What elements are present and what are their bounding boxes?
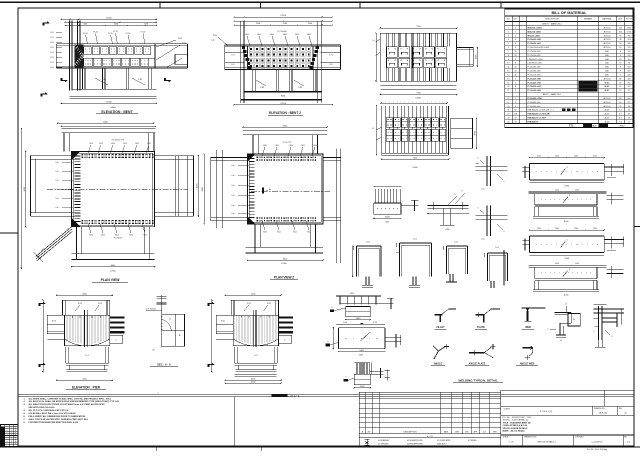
svg-text:W24x104 x8400: W24x104 x8400 — [528, 30, 541, 33]
svg-text:PL 16x180 x420: PL 16x180 x420 — [528, 67, 541, 69]
svg-text:A572-50: A572-50 — [604, 42, 611, 45]
svg-text:L4a: L4a — [232, 195, 235, 197]
svg-text:MATERIAL: MATERIAL — [602, 18, 611, 21]
svg-text:6: 6 — [332, 307, 333, 309]
view E left plan view — [21, 121, 199, 272]
svg-text:1: 1 — [11, 426, 12, 428]
svg-text:UNIT: UNIT — [618, 19, 622, 21]
svg-text:1250: 1250 — [144, 24, 148, 26]
svg-text:HSB M22x75 c/w NUT: HSB M22x75 c/w NUT — [528, 118, 547, 120]
step detail D8 — [548, 304, 581, 343]
svg-text:PL 20 TYP: PL 20 TYP — [283, 142, 292, 144]
svg-text:6: 6 — [594, 331, 595, 333]
svg-text:ALL BOLTS U.N. SHALL BE ASTM A: ALL BOLTS U.N. SHALL BE ASTM A325-N HSB … — [29, 400, 120, 403]
view C upper section (stringer plan) — [373, 26, 478, 99]
svg-text:124: 124 — [628, 51, 631, 53]
svg-text:TITLE : TRANSFER BENT 2B: TITLE : TRANSFER BENT 2B — [503, 421, 531, 424]
svg-text:PL16: PL16 — [343, 322, 347, 324]
svg-text:1: 1 — [11, 437, 12, 439]
svg-text:1-B4: 1-B4 — [260, 87, 264, 89]
svg-text:2: 2 — [515, 28, 516, 30]
svg-text:A572-50: A572-50 — [604, 77, 611, 80]
svg-text:M24: M24 — [270, 34, 274, 36]
svg-text:1: 1 — [11, 430, 12, 432]
svg-text:109: 109 — [628, 75, 631, 77]
svg-text:PL25: PL25 — [267, 303, 271, 305]
svg-text:L4: L4 — [372, 128, 374, 130]
svg-text:0: 0 — [15, 426, 16, 428]
svg-text:6: 6 — [478, 208, 479, 210]
svg-text:A-325: A-325 — [605, 113, 610, 116]
svg-text:TOT WT: TOT WT — [626, 19, 632, 21]
left bolt strip F — [250, 158, 255, 160]
svg-text:4: 4 — [515, 102, 516, 104]
svg-text:3: 3 — [508, 35, 509, 37]
svg-text:8: 8 — [515, 47, 516, 49]
svg-text:M24: M24 — [245, 34, 249, 36]
svg-text:PL 25x300 x650: PL 25x300 x650 — [528, 39, 541, 41]
svg-text:PL 20: PL 20 — [113, 31, 118, 33]
svg-text:83: 83 — [619, 98, 621, 100]
beam detail R2 — [529, 190, 624, 223]
svg-text:PL 16x300 x650: PL 16x300 x650 — [528, 106, 541, 108]
svg-text:M24: M24 — [129, 234, 132, 236]
svg-text:9: 9 — [620, 67, 621, 69]
detail small comb G1 — [373, 186, 418, 224]
svg-text:19: 19 — [628, 118, 630, 120]
svg-text:S T E E L (F): S T E E L (F) — [540, 411, 553, 413]
svg-text:M24: M24 — [293, 231, 296, 233]
svg-text:16: 16 — [515, 51, 517, 53]
svg-text:3: 3 — [620, 75, 621, 77]
svg-text:16: 16 — [515, 67, 517, 69]
svg-text:M24: M24 — [307, 231, 310, 233]
svg-text:150: 150 — [152, 350, 155, 352]
svg-text:A572-50: A572-50 — [604, 97, 611, 100]
svg-text:HOLES DIA = BOLT DIA + 2mm U.N: HOLES DIA = BOLT DIA + 2mm U.N. STD HOLE… — [29, 412, 77, 415]
svg-text:64: 64 — [515, 118, 517, 120]
svg-text:32: 32 — [515, 75, 517, 77]
svg-text:1750: 1750 — [627, 31, 631, 33]
svg-text:FOR ERECTION MARK SEE ERECTION: FOR ERECTION MARK SEE ERECTION DWG S-201… — [29, 421, 80, 424]
svg-text:2B-S-104: 2B-S-104 — [599, 413, 608, 415]
svg-text:SEC : A - A: SEC : A - A — [157, 363, 171, 367]
svg-text:M24: M24 — [307, 34, 311, 36]
svg-text:6: 6 — [346, 377, 347, 379]
svg-text:4: 4 — [515, 78, 516, 80]
svg-text:CONN. DETAILS & B.O.M.: CONN. DETAILS & B.O.M. — [503, 424, 528, 427]
svg-text:121: 121 — [628, 86, 631, 88]
svg-text:6: 6 — [612, 336, 613, 338]
svg-text:A36: A36 — [605, 54, 608, 57]
svg-text:WEB: WEB — [525, 326, 531, 329]
svg-text:05 CLIENT APPR: 05 CLIENT APPR — [437, 439, 451, 442]
svg-text:0: 0 — [15, 437, 16, 439]
svg-text:1250: 1250 — [537, 228, 541, 230]
svg-text:1250: 1250 — [593, 228, 597, 230]
svg-text:15: 15 — [507, 82, 509, 84]
svg-text:90: 90 — [619, 35, 621, 37]
detail cross G3 upper — [476, 156, 508, 191]
svg-text:M24: M24 — [295, 34, 299, 36]
svg-text:7: 7 — [508, 51, 509, 53]
svg-text:P.O. No. : 4500097 UNIT : 210: P.O. No. : 4500097 UNIT : 2100 — [503, 417, 533, 419]
box detail H4 — [485, 247, 508, 288]
svg-text:12500: 12500 — [280, 15, 286, 17]
svg-text:BENT 2B DETAILS - 1: BENT 2B DETAILS - 1 — [538, 441, 557, 444]
svg-text:13: 13 — [619, 59, 621, 61]
svg-text:2500: 2500 — [555, 228, 559, 230]
svg-text:PL 20x460 x1150: PL 20x460 x1150 — [528, 97, 542, 100]
svg-text:2-L9: 2-L9 — [50, 37, 54, 39]
cell company top — [604, 390, 606, 406]
beam detail C2 — [325, 322, 400, 357]
svg-text:12500: 12500 — [106, 102, 112, 104]
svg-text:L4a: L4a — [232, 185, 235, 187]
view B top-middle splice elevation — [211, 15, 340, 105]
svg-text:PL 20: PL 20 — [83, 33, 88, 35]
right fold tick — [634, 226, 640, 228]
svg-text:4: 4 — [515, 90, 516, 92]
svg-text:1-B2: 1-B2 — [102, 79, 106, 81]
svg-text:2-PL: 2-PL — [329, 64, 333, 66]
svg-text:24: 24 — [619, 43, 621, 45]
revision table — [359, 390, 501, 446]
svg-text:M24: M24 — [289, 145, 292, 147]
svg-text:2-L9: 2-L9 — [50, 52, 54, 54]
svg-text:PL25: PL25 — [98, 303, 102, 305]
svg-text:M24: M24 — [283, 34, 287, 36]
svg-text:PLAN VIEW: PLAN VIEW — [101, 278, 121, 282]
svg-text:323: 323 — [628, 78, 631, 80]
svg-text:M24: M24 — [313, 145, 316, 147]
svg-text:1-C1: 1-C1 — [85, 355, 89, 357]
svg-text:6: 6 — [455, 194, 456, 196]
svg-text:L 89x89x9.5 x1200: L 89x89x9.5 x1200 — [528, 59, 543, 61]
svg-text:18: 18 — [507, 98, 509, 100]
svg-text:SPLICE & BASE DETAILS: SPLICE & BASE DETAILS — [503, 427, 529, 430]
svg-text:07 ISSUED: 07 ISSUED — [468, 440, 477, 442]
svg-text:6: 6 — [567, 167, 568, 169]
svg-text:8: 8 — [515, 59, 516, 61]
svg-text:1:4: 1:4 — [560, 340, 562, 342]
svg-text:M24: M24 — [99, 143, 102, 145]
view D lower section (dense stringers) — [372, 102, 477, 169]
svg-text:PL20: PL20 — [213, 35, 217, 37]
svg-text:PL 12x150 x550: PL 12x150 x550 — [528, 51, 541, 53]
svg-text:14: 14 — [507, 78, 509, 80]
box detail H2 — [396, 239, 432, 288]
svg-text:PL 16x180 x380: PL 16x180 x380 — [528, 71, 541, 73]
svg-text:WT: WT — [366, 443, 369, 445]
svg-text:6: 6 — [567, 240, 568, 242]
svg-text:ELEVATION : PIER: ELEVATION : PIER — [72, 385, 101, 389]
svg-text:PL 20x250x0.6x350 L=600: PL 20x250x0.6x350 L=600 — [528, 47, 549, 49]
svg-text:17: 17 — [507, 90, 509, 92]
svg-text:WELDING TYPICAL DETAIL: WELDING TYPICAL DETAIL — [458, 378, 497, 382]
svg-text:20: 20 — [507, 106, 509, 108]
svg-text:1/1: 1/1 — [627, 442, 630, 444]
svg-text:2-L9: 2-L9 — [50, 57, 54, 59]
svg-text:W-4.1: W-4.1 — [605, 85, 610, 88]
svg-text:8: 8 — [515, 86, 516, 88]
svg-text:22: 22 — [507, 114, 509, 116]
svg-text:78: 78 — [628, 63, 630, 65]
svg-text:2: 2 — [515, 98, 516, 100]
svg-text:PL 20x250 TYP: PL 20x250 TYP — [112, 140, 125, 142]
svg-text:W24x104 x12500: W24x104 x12500 — [528, 27, 542, 30]
svg-text:M24: M24 — [263, 145, 266, 147]
svg-text:PL 25x420 x980: PL 25x420 x980 — [528, 77, 541, 80]
svg-text:4: 4 — [515, 106, 516, 108]
beam detail R3 — [522, 228, 623, 260]
svg-text:2500: 2500 — [283, 23, 287, 25]
svg-text:L4a: L4a — [56, 162, 59, 164]
svg-text:DESCRIPTION: DESCRIPTION — [404, 431, 418, 433]
svg-text:1250: 1250 — [537, 156, 541, 158]
svg-text:4: 4 — [515, 35, 516, 37]
svg-text:A572-50: A572-50 — [604, 27, 611, 30]
svg-text:16: 16 — [619, 47, 621, 49]
comb detail C1 — [330, 293, 394, 320]
weld symbol angle web — [516, 346, 538, 366]
detail cross G4 lower — [476, 206, 508, 241]
svg-text:10584: 10584 — [564, 186, 569, 188]
svg-text:0: 0 — [15, 439, 16, 441]
svg-text:26: 26 — [628, 110, 630, 112]
weld symbol angle plate — [465, 344, 496, 365]
left fold tick — [0, 232, 18, 234]
svg-text:L5: L5 — [565, 304, 567, 306]
weld symbol angle — [431, 344, 449, 366]
svg-text:1-PL: 1-PL — [329, 55, 333, 57]
band divider 2 — [358, 394, 360, 446]
svg-text:1-L6: 1-L6 — [454, 242, 458, 244]
svg-text:2500: 2500 — [256, 23, 260, 25]
svg-text:PL 20: PL 20 — [126, 33, 131, 35]
svg-text:A572-50: A572-50 — [604, 34, 611, 37]
bottom row cells — [521, 435, 523, 446]
weld symbol web — [522, 308, 546, 329]
svg-text:6: 6 — [478, 158, 479, 160]
svg-text:81: 81 — [619, 78, 621, 80]
svg-text:PL25: PL25 — [247, 303, 251, 305]
svg-text:2400: 2400 — [446, 229, 450, 231]
svg-text:03 DES APPROVED: 03 DES APPROVED — [407, 439, 423, 442]
svg-text:152: 152 — [628, 67, 631, 69]
top fold ticks — [159, 2, 161, 8]
svg-text:166: 166 — [628, 98, 631, 100]
svg-text:ELEVATION : BENT 2: ELEVATION : BENT 2 — [269, 111, 301, 115]
sheet top border line — [0, 1, 640, 3]
svg-text:8652: 8652 — [620, 126, 626, 128]
svg-text:6: 6 — [508, 47, 509, 49]
svg-text:2-L6: 2-L6 — [413, 239, 417, 241]
svg-text:ANGLE: ANGLE — [434, 363, 443, 366]
svg-text:1250: 1250 — [593, 156, 597, 158]
svg-text:01 DRAWN BY: 01 DRAWN BY — [378, 439, 390, 442]
svg-text:9: 9 — [620, 71, 621, 73]
svg-text:8: 8 — [515, 43, 516, 45]
svg-text:2: 2 — [508, 31, 509, 33]
bolt strip bottom — [82, 220, 83, 221]
svg-text:2-L9: 2-L9 — [50, 47, 54, 49]
svg-text:M24: M24 — [277, 231, 280, 233]
svg-text:L4a: L4a — [56, 171, 59, 173]
svg-text:2600: 2600 — [627, 28, 631, 30]
svg-text:2-L9: 2-L9 — [50, 32, 54, 34]
svg-text:2500: 2500 — [114, 24, 118, 26]
svg-text:FILLET: FILLET — [436, 326, 445, 329]
svg-text:C: C — [625, 411, 627, 415]
svg-text:HSB M24x80 c/w NUT+2W: HSB M24x80 c/w NUT+2W — [528, 113, 550, 116]
svg-text:PLATE: PLATE — [477, 326, 485, 329]
svg-text:M24: M24 — [111, 143, 114, 145]
svg-text:A572-50: A572-50 — [604, 46, 611, 49]
svg-text:C-21-0079-S: C-21-0079-S — [592, 442, 604, 444]
svg-text:7250: 7250 — [385, 222, 389, 224]
svg-text:02 CHECKED: 02 CHECKED — [378, 444, 389, 446]
svg-text:1: 1 — [11, 432, 12, 434]
view F middle plan view — [202, 125, 341, 265]
bottom tick marks — [155, 446, 157, 451]
svg-text:10: 10 — [619, 63, 621, 65]
svg-text:A1: A1 — [269, 188, 271, 191]
svg-text:A36: A36 — [605, 58, 608, 61]
svg-text:W.T: W.T — [593, 126, 598, 128]
svg-text:125: 125 — [628, 47, 631, 49]
svg-text:M24: M24 — [257, 34, 261, 36]
svg-text:A572-50: A572-50 — [604, 30, 611, 33]
svg-text:13: 13 — [507, 75, 509, 77]
svg-text:8: 8 — [515, 63, 516, 65]
svg-text:11: 11 — [507, 67, 509, 69]
svg-text:0.4: 0.4 — [619, 110, 622, 112]
svg-text:188: 188 — [628, 43, 631, 45]
weld symbol plate — [475, 309, 500, 329]
svg-text:2500: 2500 — [308, 23, 312, 25]
svg-text:PL 25x420 x760: PL 25x420 x760 — [528, 81, 541, 84]
svg-text:98: 98 — [628, 106, 630, 108]
svg-text:137: 137 — [628, 71, 631, 73]
svg-text:ANGLE PLATE: ANGLE PLATE — [469, 363, 486, 366]
svg-text:W14x90 x4200: W14x90 x4200 — [528, 34, 540, 37]
svg-text:L4a: L4a — [232, 175, 235, 177]
svg-text:ELEVATION : BENT: ELEVATION : BENT — [101, 110, 133, 114]
svg-text:0: 0 — [15, 435, 16, 437]
svg-text:A36: A36 — [605, 50, 608, 53]
svg-text:P6: P6 — [573, 319, 575, 321]
svg-text:0: 0 — [15, 428, 16, 430]
band divider 1 — [233, 397, 235, 446]
svg-text:15: 15 — [619, 86, 621, 88]
svg-text:104: 104 — [619, 28, 622, 30]
svg-text:HSB M24x90 c/w NUT+2W # #: HSB M24x90 c/w NUT+2W # # # — [528, 110, 554, 112]
svg-text:6: 6 — [328, 341, 329, 343]
svg-text:L4a: L4a — [56, 207, 59, 209]
svg-text:A-325: A-325 — [605, 117, 610, 120]
svg-text:L4a: L4a — [56, 198, 59, 200]
svg-text:6: 6 — [569, 269, 570, 271]
band separator double line — [18, 393, 634, 395]
svg-text:12500: 12500 — [106, 18, 112, 20]
svg-text:12: 12 — [507, 71, 509, 73]
bolt strip top — [82, 154, 83, 155]
svg-text:PL 20x250: PL 20x250 — [114, 238, 123, 240]
svg-text:M24: M24 — [123, 143, 126, 145]
comb detail C3 — [343, 363, 390, 389]
svg-text:06 AS BUILT: 06 AS BUILT — [437, 443, 447, 446]
svg-text:97: 97 — [628, 90, 630, 92]
svg-text:L4a: L4a — [232, 165, 235, 167]
svg-text:L4a: L4a — [56, 180, 59, 182]
svg-text:A-325: A-325 — [605, 109, 610, 112]
title block — [501, 390, 634, 446]
svg-text:PL 25x300: PL 25x300 — [278, 31, 287, 33]
svg-text:6: 6 — [462, 191, 463, 193]
svg-text:6: 6 — [569, 195, 570, 197]
svg-text:PL 16x200 x500: PL 16x200 x500 — [528, 90, 541, 92]
corner gussets E — [72, 151, 81, 160]
svg-text:A572-50: A572-50 — [604, 101, 611, 104]
svg-text:ALL WELD E70XX ELECTRODE, FILL: ALL WELD E70XX ELECTRODE, FILLET WELD 6m… — [29, 403, 106, 406]
svg-text:04 ENG APPROVED: 04 ENG APPROVED — [407, 443, 424, 446]
svg-text:PL16: PL16 — [373, 322, 377, 324]
svg-text:BILL OF MATERIAL: BILL OF MATERIAL — [551, 11, 587, 15]
svg-text:1-B4: 1-B4 — [298, 87, 302, 89]
svg-text:L 89x89x9.5 x900: L 89x89x9.5 x900 — [528, 63, 542, 65]
svg-text:6: 6 — [548, 329, 549, 331]
svg-text:1-L6: 1-L6 — [495, 247, 499, 249]
svg-text:1-C1: 1-C1 — [254, 355, 258, 357]
svg-text:0: 0 — [15, 441, 16, 443]
svg-text:x: x — [7, 443, 8, 445]
svg-text:PL25: PL25 — [78, 303, 82, 305]
svg-text:REMARK: REMARK — [584, 18, 593, 21]
svg-text:PL16: PL16 — [221, 321, 225, 323]
bent elevation W3 — [207, 294, 293, 381]
svg-text:PL 20: PL 20 — [141, 32, 146, 34]
svg-text:1850: 1850 — [350, 293, 354, 295]
svg-text:M24: M24 — [143, 234, 146, 236]
svg-text:128: 128 — [514, 114, 517, 116]
beam detail R4 — [529, 263, 624, 296]
svg-text:M24: M24 — [147, 143, 150, 145]
svg-text:PLAN VIEW 2: PLAN VIEW 2 — [274, 276, 295, 280]
svg-text:M24: M24 — [89, 143, 92, 145]
svg-text:63: 63 — [619, 82, 621, 84]
svg-text:L4: L4 — [373, 40, 375, 42]
svg-text:2-L9: 2-L9 — [50, 67, 54, 69]
svg-text:756: 756 — [628, 35, 631, 37]
svg-text:23: 23 — [507, 118, 509, 120]
svg-text:275: 275 — [628, 102, 631, 104]
svg-text:PL 12x150 x450: PL 12x150 x450 — [528, 55, 541, 57]
svg-text:1: 1 — [508, 28, 509, 30]
svg-text:4: 4 — [515, 82, 516, 84]
svg-text:M24: M24 — [275, 145, 278, 147]
svg-text:NO.: NO. — [507, 19, 511, 21]
svg-text:W-4.1: W-4.1 — [605, 89, 610, 92]
svg-text:ALL WORK SHALL CONFORM TO AISC: ALL WORK SHALL CONFORM TO AISC SPEC. 13T… — [29, 397, 112, 400]
svg-text:A-325: A-325 — [605, 120, 610, 123]
svg-text:153: 153 — [628, 39, 631, 41]
svg-text:M24: M24 — [89, 234, 92, 236]
bottom border line — [0, 446, 640, 448]
svg-text:FIELD VERIFY ALL DIMENSIONS PR: FIELD VERIFY ALL DIMENSIONS PRIOR TO FAB… — [29, 415, 87, 418]
svg-text:10584: 10584 — [564, 258, 569, 260]
svg-text:102: 102 — [628, 55, 631, 57]
